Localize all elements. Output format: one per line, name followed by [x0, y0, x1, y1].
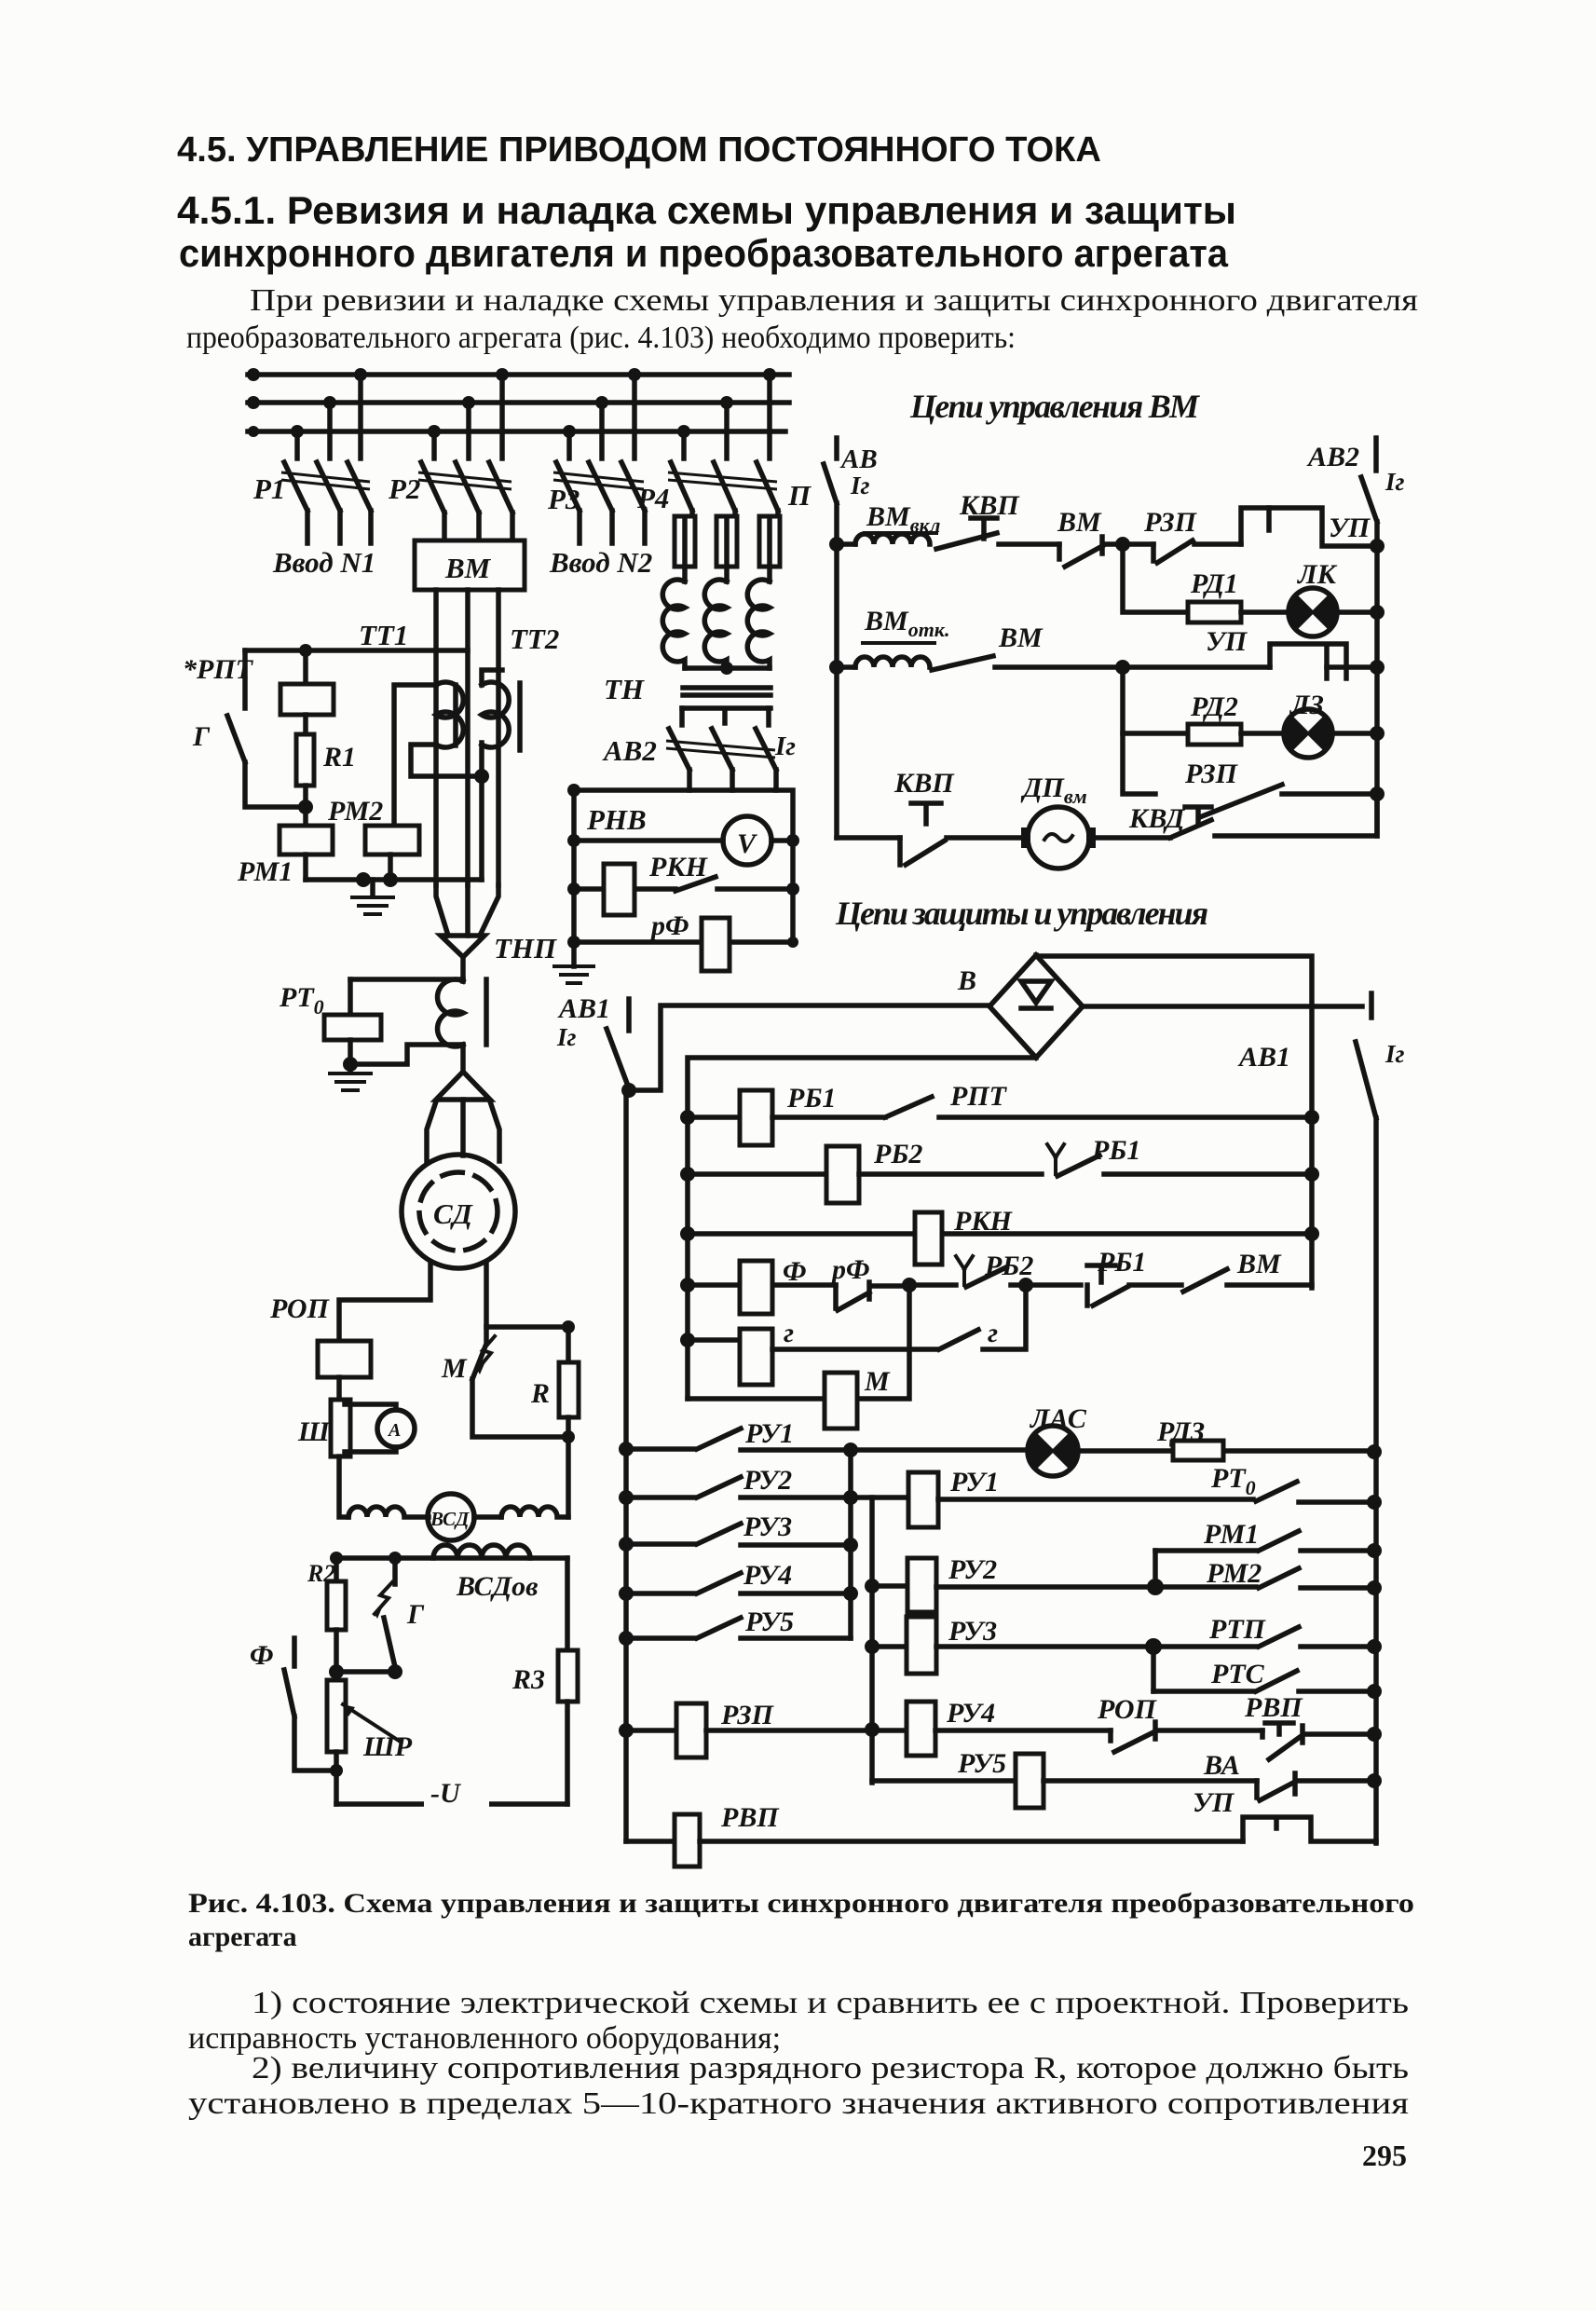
svg-text:Ф: Ф	[783, 1256, 807, 1287]
svg-text:Р1: Р1	[252, 472, 285, 505]
svg-text:Р4: Р4	[636, 482, 669, 514]
svg-text:РБ1: РБ1	[1097, 1247, 1146, 1278]
svg-text:R3: R3	[512, 1664, 545, 1695]
svg-text:Рис. 4.103. Схема управления и: Рис. 4.103. Схема управления и защиты си…	[188, 1888, 1414, 1919]
svg-text:R: R	[530, 1378, 550, 1409]
svg-text:ВМ: ВМ	[1236, 1249, 1282, 1279]
svg-text:Ф: Ф	[250, 1640, 274, 1671]
svg-text:АВ2: АВ2	[602, 734, 657, 767]
svg-text:РД2: РД2	[1190, 691, 1238, 722]
svg-text:РТП: РТП	[1208, 1614, 1267, 1645]
svg-text:синхронного двигателя и преобр: синхронного двигателя и преобразовательн…	[179, 231, 1229, 275]
svg-text:РТС: РТС	[1210, 1659, 1265, 1689]
svg-text:ТНП: ТНП	[494, 932, 557, 964]
svg-text:А: А	[387, 1420, 401, 1441]
svg-text:СД: СД	[433, 1197, 474, 1230]
svg-text:ШР: ШР	[362, 1731, 413, 1762]
svg-text:АВ2: АВ2	[1306, 442, 1359, 472]
svg-text:ЛЗ: ЛЗ	[1289, 690, 1324, 720]
svg-text:АВ1: АВ1	[1237, 1042, 1290, 1073]
svg-text:РУ5: РУ5	[744, 1607, 794, 1637]
svg-text:РКН: РКН	[648, 852, 709, 882]
svg-text:г: г	[784, 1318, 794, 1348]
svg-text:ВМ: ВМ	[998, 622, 1044, 653]
svg-text:РМ2: РМ2	[1206, 1558, 1262, 1589]
svg-text:агрегата: агрегата	[188, 1921, 297, 1952]
svg-text:РУ3: РУ3	[743, 1511, 792, 1542]
svg-text:М: М	[864, 1366, 891, 1397]
svg-text:Цепи управления ВМ: Цепи управления ВМ	[909, 388, 1201, 425]
svg-text:ДПвм: ДПвм	[1020, 773, 1087, 808]
svg-text:М: М	[441, 1353, 468, 1384]
svg-text:РПТ: РПТ	[949, 1081, 1008, 1112]
svg-text:рФ: рФ	[648, 910, 689, 941]
svg-text:Iг: Iг	[556, 1023, 577, 1051]
svg-text:РВП: РВП	[720, 1802, 780, 1833]
svg-text:РМ1: РМ1	[237, 856, 293, 887]
svg-text:ВСД: ВСД	[430, 1508, 470, 1530]
svg-text:В: В	[957, 965, 976, 996]
svg-text:АВ1: АВ1	[557, 993, 610, 1024]
svg-text:Iг: Iг	[774, 732, 796, 761]
svg-text:рФ: рФ	[829, 1254, 870, 1285]
svg-text:РУ5: РУ5	[957, 1748, 1006, 1779]
svg-text:УП: УП	[1329, 513, 1371, 543]
svg-text:-U: -U	[430, 1778, 461, 1809]
svg-text:ТТ2: ТТ2	[510, 622, 559, 655]
svg-text:РБ2: РБ2	[873, 1139, 922, 1169]
svg-text:V: V	[737, 828, 758, 859]
svg-text:РД1: РД1	[1190, 568, 1238, 599]
svg-text:РБ1: РБ1	[786, 1083, 836, 1114]
svg-text:Ввод N2: Ввод N2	[549, 546, 652, 579]
svg-text:ТТ1: ТТ1	[359, 619, 408, 651]
svg-text:1) состояние электрической схе: 1) состояние электрической схемы и сравн…	[252, 1986, 1409, 2020]
svg-text:Г: Г	[192, 721, 211, 752]
svg-text:295: 295	[1362, 2139, 1407, 2172]
svg-text:Цепи защиты и управления: Цепи защиты и управления	[835, 895, 1208, 932]
svg-text:Р2: Р2	[388, 472, 420, 505]
svg-text:ВМ: ВМ	[444, 552, 492, 584]
svg-text:РТ0: РТ0	[279, 982, 324, 1019]
svg-text:4.5. УПРАВЛЕНИЕ ПРИВОДОМ ПОСТО: 4.5. УПРАВЛЕНИЕ ПРИВОДОМ ПОСТОЯННОГО ТОК…	[177, 130, 1101, 170]
svg-text:РЗП: РЗП	[1143, 507, 1198, 538]
svg-text:РНВ: РНВ	[586, 803, 647, 836]
svg-text:РУ2: РУ2	[948, 1554, 997, 1585]
svg-text:РУ3: РУ3	[948, 1616, 997, 1647]
svg-text:R1: R1	[322, 742, 356, 773]
svg-text:РУ4: РУ4	[743, 1560, 792, 1591]
svg-text:П: П	[787, 479, 812, 512]
svg-text:г: г	[988, 1318, 998, 1348]
svg-text:2) величину сопротивления разр: 2) величину сопротивления разрядного рез…	[252, 2051, 1409, 2085]
svg-text:РМ1: РМ1	[1203, 1519, 1259, 1550]
svg-text:РЗП: РЗП	[720, 1700, 775, 1730]
svg-text:Ш: Ш	[297, 1416, 331, 1447]
svg-text:РУ2: РУ2	[743, 1465, 792, 1496]
svg-text:КВП: КВП	[893, 768, 955, 799]
svg-text:ВМотк.: ВМотк.	[864, 606, 949, 641]
svg-text:ВА: ВА	[1203, 1750, 1240, 1781]
svg-text:АВ: АВ	[839, 444, 878, 474]
svg-text:ВМ: ВМ	[1057, 507, 1102, 538]
svg-text:РКН: РКН	[953, 1206, 1014, 1237]
svg-text:Г: Г	[406, 1599, 425, 1630]
svg-text:РУ1: РУ1	[949, 1467, 999, 1497]
svg-text:ВСДов: ВСДов	[456, 1571, 539, 1602]
svg-text:УП: УП	[1206, 626, 1248, 657]
svg-text:Р3: Р3	[547, 483, 580, 515]
svg-text:ЛК: ЛК	[1296, 559, 1338, 590]
svg-text:РТ0: РТ0	[1210, 1463, 1256, 1499]
svg-text:Iг: Iг	[1385, 468, 1405, 496]
svg-text:При ревизии и наладке схемы уп: При ревизии и наладке схемы управления и…	[250, 283, 1418, 318]
svg-text:4.5.1. Ревизия и наладка схемы: 4.5.1. Ревизия и наладка схемы управлени…	[177, 188, 1236, 232]
svg-text:РУ4: РУ4	[946, 1698, 995, 1729]
svg-text:преобразовательного агрегата (: преобразовательного агрегата (рис. 4.103…	[186, 321, 1016, 355]
svg-text:РВП: РВП	[1244, 1692, 1303, 1723]
svg-text:Iг: Iг	[850, 472, 870, 499]
svg-text:РЗП: РЗП	[1184, 759, 1239, 789]
svg-text:КВД: КВД	[1128, 803, 1186, 834]
svg-text:УП: УП	[1193, 1787, 1235, 1818]
svg-text:Iг: Iг	[1385, 1040, 1405, 1068]
svg-text:установлено в пределах 5—10-кр: установлено в пределах 5—10-кратного зна…	[188, 2086, 1409, 2121]
svg-text:Ввод N1: Ввод N1	[272, 546, 375, 579]
svg-text:РОП: РОП	[1097, 1694, 1158, 1725]
svg-text:РМ2: РМ2	[327, 796, 383, 827]
svg-text:РОП: РОП	[269, 1293, 331, 1324]
svg-text:ТН: ТН	[604, 673, 645, 705]
svg-text:РБ1: РБ1	[1091, 1135, 1140, 1166]
svg-text:РУ1: РУ1	[744, 1418, 794, 1449]
